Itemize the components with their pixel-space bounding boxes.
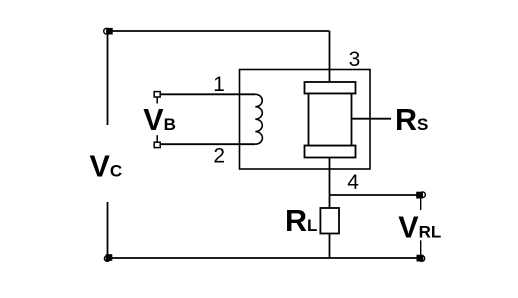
terminal node top-right: [417, 192, 426, 210]
svg-text:2: 2: [213, 144, 225, 167]
stub below top-right terminal: [420, 198, 422, 210]
resistor RS top cap: [305, 82, 356, 94]
stub above bottom-right terminal: [420, 240, 422, 255]
wire RS label leader line: [330, 118, 392, 120]
wire top horizontal: [108, 30, 330, 32]
svg-text:4: 4: [347, 171, 359, 194]
svg-text:1: 1: [213, 73, 225, 96]
inductor coil (relay winding): [255, 94, 262, 144]
wire VB terminal 1 to coil: [161, 93, 256, 95]
svg-text:3: 3: [349, 48, 361, 71]
terminal VB minus (square): [154, 135, 160, 147]
terminal node bottom-left: [104, 255, 111, 262]
terminal node top-left: [104, 28, 112, 34]
resistor RS bottom cap: [305, 146, 356, 158]
stub below VB plus terminal: [156, 97, 158, 104]
wire RS bottom to RL top: [329, 158, 331, 209]
wire RL bottom: [329, 234, 331, 259]
wire node 4 horizontal: [330, 194, 421, 196]
wire VB terminal 2 to coil: [161, 143, 256, 145]
resistor RS body: [309, 94, 352, 146]
resistor RL body: [320, 208, 339, 234]
relay box outline: [240, 70, 371, 170]
wire left vertical upper segment: [107, 31, 109, 125]
wire right vertical into relay box top: [329, 31, 331, 82]
terminal VB plus (square): [154, 92, 160, 104]
wire bottom horizontal: [108, 257, 421, 259]
wire left vertical lower segment: [107, 202, 109, 258]
stub above VB minus terminal: [156, 135, 158, 142]
terminal node bottom-right: [417, 240, 424, 261]
